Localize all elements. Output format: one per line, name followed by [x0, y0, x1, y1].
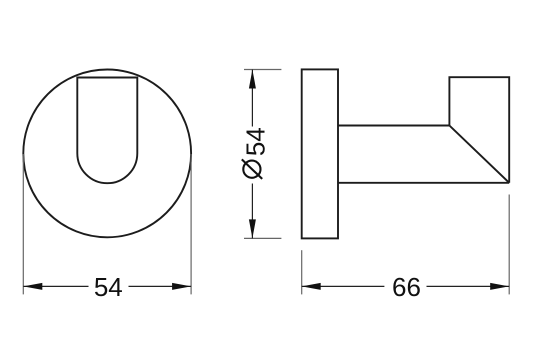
arrowhead bottom of diameter dim: [249, 219, 256, 238]
extension line bottom (diameter dim): [244, 237, 281, 239]
svg-text:66: 66: [392, 272, 421, 302]
side view: mounting plate rectangle: [302, 69, 338, 238]
extension line left (front width dim): [22, 154, 24, 294]
dimension line diameter (upper segment): [251, 70, 253, 127]
svg-text:54: 54: [94, 272, 123, 302]
side view: hook arm bottom edge: [338, 182, 509, 184]
arrowhead left of dim 66: [302, 283, 321, 290]
dimension line 54 (left segment): [23, 285, 88, 287]
front view: U-shaped hook post: [77, 78, 137, 184]
dimension text Ø54: diameter symbol slash: [242, 159, 262, 179]
dimension line 66 (right segment): [427, 285, 510, 287]
front view: circular backplate outline: [23, 69, 191, 237]
dimension line diameter (lower segment): [251, 184, 253, 239]
arrowhead right of dim 54: [172, 283, 191, 290]
extension line right (front width dim): [190, 154, 192, 294]
side view: hook arm top edge: [338, 125, 449, 127]
extension line right (depth dim): [508, 195, 510, 295]
side view: hook head chamfer diagonal: [449, 126, 509, 183]
extension line left (depth dim): [301, 250, 303, 294]
arrowhead left of dim 54: [23, 283, 42, 290]
dimension text Ø54: diameter symbol circle: [243, 161, 260, 178]
dimension line 54 (right segment): [129, 285, 192, 287]
arrowhead top of diameter dim: [249, 70, 256, 89]
arrowhead right of dim 66: [490, 283, 509, 290]
side view: hook head outline: [449, 77, 509, 183]
dimension line 66 (left segment): [302, 285, 385, 287]
extension line top (diameter dim): [244, 69, 281, 71]
svg-text:54: 54: [241, 127, 271, 156]
